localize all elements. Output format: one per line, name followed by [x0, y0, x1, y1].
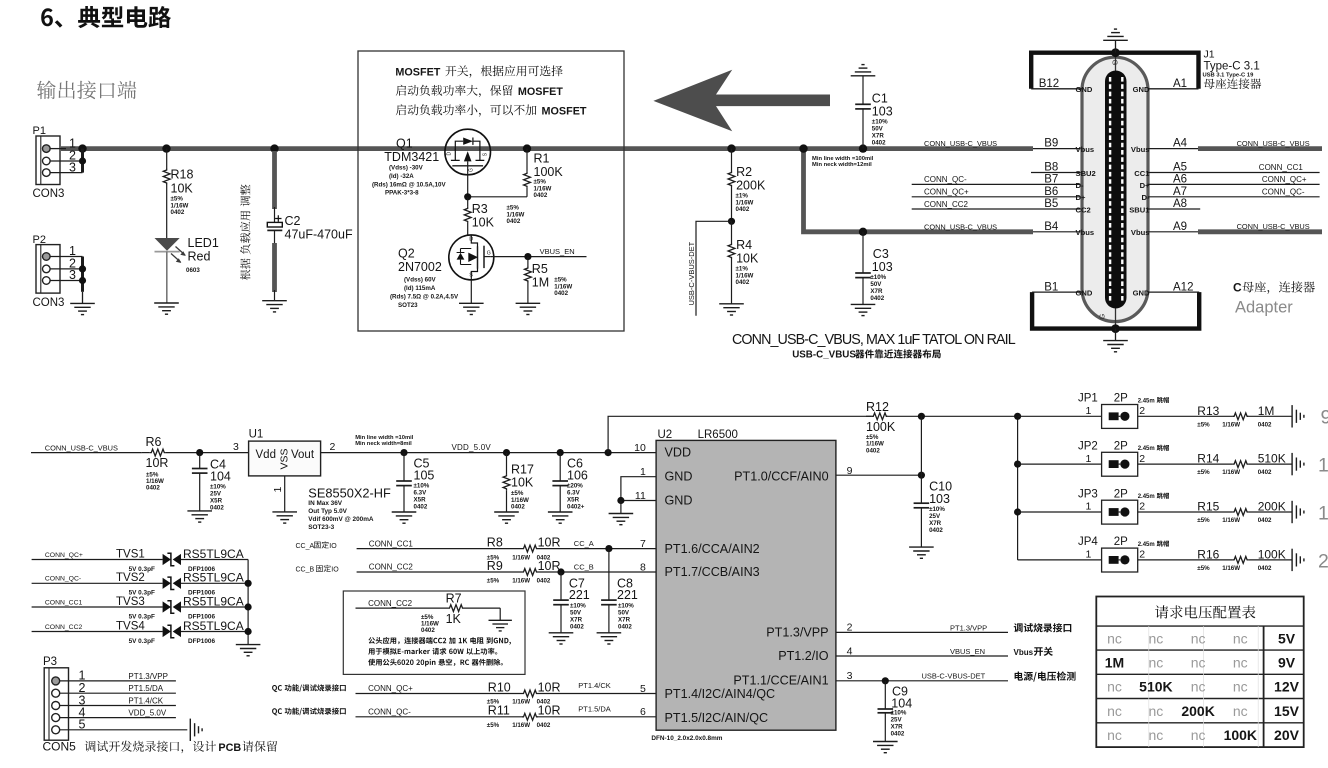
- junction dot Q1 gate / R1 / R3: [464, 193, 471, 200]
- svg-text:0402: 0402: [618, 623, 632, 630]
- svg-text:B7: B7: [1044, 173, 1058, 185]
- svg-text:6.3V: 6.3V: [567, 490, 581, 497]
- junction dot R5: [524, 253, 531, 260]
- svg-text:PT1.5/I2C/AIN/QC: PT1.5/I2C/AIN/QC: [665, 711, 769, 725]
- resistor R13 1M: [1138, 404, 1292, 429]
- svg-text:R2: R2: [736, 165, 752, 179]
- capacitor C4 104: [192, 453, 231, 512]
- svg-text:SOT23: SOT23: [398, 302, 418, 309]
- svg-text:10R: 10R: [538, 680, 561, 694]
- net label CONN_USB-C_VBUS (B4): [924, 222, 997, 231]
- svg-text:G: G: [487, 251, 491, 257]
- U2 pin numbers left: [634, 442, 646, 718]
- svg-text:11: 11: [635, 490, 646, 502]
- svg-text:2P: 2P: [1114, 536, 1128, 548]
- voltage request configuration table: [1096, 597, 1303, 748]
- svg-text:10R: 10R: [538, 535, 561, 549]
- ground below R17: [494, 512, 519, 523]
- svg-text:100K: 100K: [1224, 727, 1257, 743]
- svg-text:PT1.5/DA: PT1.5/DA: [128, 684, 163, 693]
- svg-text:RS5TL9CA: RS5TL9CA: [183, 547, 244, 561]
- resistor R16 100K: [1138, 547, 1292, 572]
- svg-text:A6: A6: [1173, 173, 1187, 185]
- svg-text:CONN_USB-C_VBUS: CONN_USB-C_VBUS: [1237, 139, 1310, 148]
- ground below U2 GND pins: [609, 514, 634, 525]
- regulator U1 SE8550X2-HF: [233, 428, 391, 530]
- svg-text:0402: 0402: [872, 140, 886, 147]
- svg-text:GND: GND: [1076, 85, 1093, 94]
- svg-text:1/16W: 1/16W: [1222, 469, 1240, 476]
- svg-text:510K: 510K: [1258, 452, 1286, 466]
- svg-text:R6: R6: [146, 435, 162, 449]
- svg-text:0402: 0402: [171, 209, 185, 216]
- svg-text:10K: 10K: [472, 216, 495, 230]
- svg-text:R8: R8: [487, 535, 503, 549]
- label Adapter: [1235, 299, 1293, 317]
- svg-text:SBU1: SBU1: [1129, 205, 1150, 214]
- svg-text:DFN-10_2.0x2.0x0.8mm: DFN-10_2.0x2.0x0.8mm: [651, 735, 722, 742]
- svg-text:X7R: X7R: [870, 288, 883, 295]
- svg-text:JP1: JP1: [1078, 393, 1098, 405]
- capacitor C9 104: [878, 681, 913, 742]
- svg-text:nc: nc: [1149, 655, 1164, 671]
- svg-text:R12: R12: [866, 400, 889, 414]
- wire U2 pin9 PT1.0: [836, 472, 925, 479]
- connector P3 CON5: [43, 656, 77, 754]
- jumper JP1 2P: [1018, 393, 1169, 429]
- svg-text:10R: 10R: [146, 456, 169, 470]
- svg-text:CONN_CC2: CONN_CC2: [924, 200, 969, 209]
- svg-text:CONN_QC-: CONN_QC-: [45, 576, 81, 583]
- svg-text:10R: 10R: [538, 559, 561, 573]
- svg-text:TVS4: TVS4: [116, 620, 145, 632]
- svg-text:Out Typ 5.0V: Out Typ 5.0V: [308, 508, 347, 515]
- svg-text:100K: 100K: [866, 420, 896, 434]
- svg-text:B6: B6: [1044, 186, 1058, 198]
- svg-text:JP2: JP2: [1078, 440, 1098, 452]
- svg-text:SBU2: SBU2: [1076, 169, 1096, 178]
- svg-text:CONN_USB-C_VBUS: CONN_USB-C_VBUS: [924, 139, 997, 148]
- svg-text:PT1.7/CCB/AIN3: PT1.7/CCB/AIN3: [665, 565, 760, 579]
- svg-text:R4: R4: [736, 238, 752, 252]
- wire VDD to R12 branch: [608, 416, 872, 452]
- label voltage 9V (clipped): [1321, 407, 1328, 429]
- svg-text:P3: P3: [43, 656, 57, 668]
- svg-text:R5: R5: [532, 262, 548, 276]
- svg-text:SE8550X2-HF: SE8550X2-HF: [308, 485, 391, 500]
- svg-text:USB-C_VBUS: USB-C_VBUS: [792, 350, 856, 361]
- svg-text:CONN_USB-C_VBUS: CONN_USB-C_VBUS: [1237, 222, 1310, 231]
- transistor Q2 2N7002 NMOS: [390, 235, 494, 309]
- svg-text:25V: 25V: [210, 491, 222, 498]
- svg-text:PT1.1/CCE/AIN1: PT1.1/CCE/AIN1: [733, 674, 828, 688]
- svg-text:0402: 0402: [866, 447, 880, 454]
- svg-text:Q1: Q1: [396, 137, 413, 151]
- svg-text:PT1.5/DA: PT1.5/DA: [578, 704, 611, 713]
- junction dot C10 top: [918, 413, 925, 420]
- svg-text:CONN_USB-C_VBUS: CONN_USB-C_VBUS: [45, 443, 118, 452]
- svg-text:D: D: [469, 237, 473, 243]
- capacitor C1 103: [855, 76, 893, 149]
- net label CONN_USB-C_VBUS (B9): [924, 139, 997, 148]
- wire CONN_USB-C_VBUS right (A4): [1148, 139, 1322, 149]
- svg-text:R9: R9: [487, 559, 503, 573]
- svg-text:20V: 20V: [1274, 727, 1300, 743]
- svg-text:Min neck width=8mil: Min neck width=8mil: [355, 441, 412, 447]
- svg-text:VDD: VDD: [665, 446, 692, 460]
- svg-text:(Rds) 16mΩ @ 10.5A,10V: (Rds) 16mΩ @ 10.5A,10V: [372, 181, 446, 188]
- resistor R2 200K: [728, 149, 766, 222]
- svg-text:nc: nc: [1107, 703, 1122, 719]
- svg-text:CONN_QC-: CONN_QC-: [924, 175, 967, 184]
- label QC debug port 2 (Chinese): [272, 708, 346, 716]
- svg-text:0402: 0402: [1258, 565, 1272, 572]
- svg-text:PPAK-3*3-8: PPAK-3*3-8: [385, 190, 419, 197]
- svg-text:(Vdss) -30V: (Vdss) -30V: [389, 165, 424, 172]
- TVS diode TVS2 RS5TL9CA (CONN_QC-): [32, 571, 249, 597]
- svg-text:1: 1: [1085, 501, 1091, 513]
- P2 pin wires and numbers: [50, 244, 86, 292]
- ground below Q2 source: [459, 280, 484, 315]
- title 6 typical circuit: [41, 6, 171, 28]
- svg-text:GND: GND: [1133, 289, 1150, 298]
- svg-text:10K: 10K: [511, 476, 534, 490]
- LED LED1 Red: [155, 236, 219, 303]
- svg-text:RS5TL9CA: RS5TL9CA: [183, 619, 244, 633]
- svg-text:3: 3: [69, 160, 76, 174]
- svg-text:±5%: ±5%: [1197, 421, 1210, 428]
- junction dot R2/R4 divider: [728, 218, 735, 225]
- svg-text:nc: nc: [1191, 655, 1206, 671]
- wire VDD_5.0V rail: [321, 435, 656, 452]
- wire JP bus vertical: [1014, 413, 1021, 560]
- svg-text:6.3V: 6.3V: [414, 490, 428, 497]
- svg-text:LR6500: LR6500: [698, 429, 738, 441]
- svg-text:200K: 200K: [1181, 703, 1214, 719]
- svg-text:R1: R1: [534, 152, 550, 166]
- svg-text:PT1.3/VPP: PT1.3/VPP: [128, 672, 168, 681]
- wire VBUS main rail: [61, 146, 1033, 151]
- svg-text:MOSFET: MOSFET: [395, 66, 440, 78]
- svg-text:CONN_QC+: CONN_QC+: [1262, 175, 1307, 184]
- svg-text:Min neck width=12mil: Min neck width=12mil: [812, 162, 872, 168]
- svg-text:TVS2: TVS2: [116, 572, 145, 584]
- svg-text:50V: 50V: [870, 281, 882, 288]
- svg-text:A1: A1: [1173, 78, 1187, 90]
- svg-text:VDD_5.0V: VDD_5.0V: [452, 443, 492, 452]
- junction dot C4: [196, 449, 203, 456]
- svg-text:CONN_CC2: CONN_CC2: [369, 563, 414, 572]
- svg-text:2: 2: [1139, 453, 1145, 465]
- ground below R5: [516, 303, 541, 314]
- svg-text:2.45m: 2.45m: [1138, 398, 1155, 404]
- svg-text:1M: 1M: [532, 276, 549, 290]
- svg-text:SOT23-3: SOT23-3: [308, 524, 334, 531]
- jumper JP3 2P: [1018, 488, 1169, 524]
- svg-text:±5%: ±5%: [1197, 469, 1210, 476]
- svg-text:A9: A9: [1173, 221, 1187, 233]
- svg-text:1/16W: 1/16W: [1222, 565, 1240, 572]
- svg-text:B12: B12: [1039, 78, 1059, 90]
- svg-text:5: 5: [640, 683, 646, 695]
- svg-text:PT1.4/CK: PT1.4/CK: [578, 681, 611, 690]
- svg-text:USB 3.1 Type-C 19: USB 3.1 Type-C 19: [1203, 72, 1255, 78]
- svg-text:B1: B1: [1044, 281, 1058, 293]
- svg-text:0402: 0402: [511, 504, 525, 511]
- svg-text:0402: 0402: [534, 192, 548, 199]
- side ground at R15: [1292, 501, 1304, 523]
- svg-text:0402: 0402: [736, 279, 750, 286]
- svg-text:VSS: VSS: [279, 448, 291, 469]
- svg-text:CONN_QC+: CONN_QC+: [368, 684, 413, 693]
- bottom GND bracket wire (B1/A12): [1032, 292, 1199, 333]
- svg-text:221: 221: [617, 588, 638, 602]
- svg-text:200K: 200K: [1258, 500, 1286, 514]
- ground below C6: [548, 512, 573, 523]
- svg-text:2.45m: 2.45m: [1138, 494, 1155, 500]
- svg-text:10R: 10R: [538, 704, 561, 718]
- wire TVS common ground bus: [245, 560, 252, 645]
- svg-text:R17: R17: [511, 463, 534, 477]
- label CC_B fixed IO (Chinese): [296, 565, 340, 574]
- svg-text:0402: 0402: [870, 295, 884, 302]
- wire PT1.3/VPP output: [836, 623, 1071, 632]
- resistor R15 200K: [1138, 500, 1292, 525]
- svg-text:50V: 50V: [570, 609, 582, 616]
- svg-text:±5%: ±5%: [1197, 517, 1210, 524]
- svg-text:B5: B5: [1044, 198, 1058, 210]
- resistor R4 10K: [728, 221, 759, 303]
- svg-text:103: 103: [929, 492, 950, 506]
- svg-text:CON5: CON5: [43, 740, 77, 754]
- svg-text:1: 1: [640, 466, 646, 478]
- svg-text:0402: 0402: [210, 505, 224, 512]
- ground below C2: [262, 301, 287, 312]
- resistor R3 10K: [464, 197, 524, 235]
- svg-text:IO: IO: [331, 566, 339, 573]
- svg-text:Vbus: Vbus: [1131, 228, 1150, 237]
- svg-text:B4: B4: [1044, 221, 1059, 233]
- svg-text:221: 221: [569, 588, 590, 602]
- label voltage 12V (clipped): [1318, 455, 1328, 477]
- svg-text:Adapter: Adapter: [1235, 299, 1293, 317]
- wire B9 thin segment: [1033, 148, 1082, 150]
- svg-text:100K: 100K: [534, 165, 564, 179]
- big gray arrow pointing left: [653, 70, 830, 132]
- J1 pin names inside body: [1076, 85, 1151, 297]
- svg-text:CONN_USB-C_VBUS: CONN_USB-C_VBUS: [924, 222, 997, 231]
- resistor R1 100K: [468, 149, 564, 200]
- svg-text:DFP1006: DFP1006: [188, 638, 215, 645]
- svg-text:105: 105: [414, 468, 435, 482]
- svg-text:nc: nc: [1149, 703, 1164, 719]
- TVS diode TVS3 RS5TL9CA (CONN_CC1): [32, 594, 249, 620]
- svg-text:3: 3: [233, 441, 239, 453]
- resistor R14 510K: [1138, 452, 1292, 477]
- svg-text:G: G: [1098, 314, 1107, 320]
- svg-text:±20%: ±20%: [567, 483, 583, 490]
- svg-text:CON3: CON3: [33, 188, 65, 200]
- svg-text:0402: 0402: [570, 623, 584, 630]
- svg-text:GND: GND: [665, 470, 693, 484]
- svg-text:0603: 0603: [186, 267, 200, 274]
- ground below C3: [851, 304, 876, 315]
- svg-text:±10%: ±10%: [570, 602, 586, 609]
- svg-text:CONN_QC+: CONN_QC+: [45, 552, 83, 559]
- svg-text:A12: A12: [1173, 281, 1193, 293]
- svg-text:X7R: X7R: [929, 520, 942, 527]
- svg-text:15: 15: [1318, 502, 1328, 524]
- svg-text:0402+: 0402+: [567, 504, 585, 511]
- capacitor C8 221: [601, 549, 638, 633]
- side ground at R13: [1292, 405, 1304, 427]
- svg-text:Vbus: Vbus: [1076, 228, 1095, 237]
- svg-text:103: 103: [872, 260, 893, 274]
- svg-text:Vout: Vout: [291, 449, 315, 461]
- svg-text:1K: 1K: [446, 612, 462, 626]
- svg-text:CC_A: CC_A: [296, 543, 315, 550]
- svg-text:nc: nc: [1149, 630, 1164, 646]
- svg-text:CONN_USB-C_VBUS, MAX 1uF TATOL: CONN_USB-C_VBUS, MAX 1uF TATOL ON RAIL: [732, 332, 1016, 348]
- ground below J1: [1103, 329, 1128, 352]
- transistor Q1 TDM3421 PMOS: [372, 129, 491, 197]
- svg-text:nc: nc: [1149, 727, 1164, 743]
- svg-text:nc: nc: [1233, 703, 1248, 719]
- svg-text:1: 1: [1085, 405, 1091, 417]
- wire CONN_CC2 stub (B5): [912, 200, 1082, 209]
- ground below C10: [909, 547, 934, 558]
- wire R12 to JP bus: [921, 415, 1017, 417]
- svg-text:(Vdss) 60V: (Vdss) 60V: [404, 277, 437, 284]
- svg-text:X7R: X7R: [891, 723, 904, 730]
- wire A8 stub: [1148, 208, 1200, 210]
- svg-text:0402: 0402: [537, 578, 551, 585]
- svg-text:CON3: CON3: [33, 297, 65, 309]
- svg-text:Vdif 600mV @ 200mA: Vdif 600mV @ 200mA: [308, 516, 374, 523]
- svg-text:R16: R16: [1197, 547, 1219, 561]
- connector J1 USB Type-C body: [1082, 53, 1148, 329]
- ground below TVS bus: [236, 645, 261, 656]
- svg-text:0402: 0402: [537, 722, 551, 729]
- svg-text:10K: 10K: [171, 182, 194, 196]
- svg-text:TVS1: TVS1: [116, 548, 145, 560]
- resistor R10 10R (CONN_QC+): [356, 680, 657, 705]
- svg-text:0402: 0402: [1258, 517, 1272, 524]
- wire USB-C-VBUS-DET output: [836, 671, 1076, 684]
- svg-text:GND: GND: [665, 494, 693, 508]
- svg-text:C: C: [1233, 281, 1242, 295]
- wire B8 stub: [1031, 172, 1082, 174]
- svg-text:±5%: ±5%: [487, 578, 500, 585]
- label C receptacle connector (Chinese): [1233, 281, 1315, 295]
- svg-text:103: 103: [872, 104, 893, 118]
- svg-text:R3: R3: [472, 202, 488, 216]
- svg-text:1/16W: 1/16W: [1222, 421, 1240, 428]
- svg-text:USB-C-VBUS-DET: USB-C-VBUS-DET: [687, 241, 696, 305]
- svg-text:1M: 1M: [1105, 655, 1124, 671]
- TVS diode TVS4 RS5TL9CA (CONN_CC2): [32, 619, 249, 645]
- svg-text:nc: nc: [1191, 679, 1206, 695]
- svg-text:X5R: X5R: [210, 498, 223, 505]
- svg-text:P1: P1: [33, 125, 46, 137]
- TVS diode TVS1 RS5TL9CA (CONN_QC+): [32, 547, 249, 573]
- svg-text:2: 2: [1139, 549, 1145, 561]
- svg-text:PT1.4/CK: PT1.4/CK: [128, 697, 163, 706]
- svg-text:10K: 10K: [736, 252, 759, 266]
- ground below C8: [597, 633, 622, 644]
- svg-text:200K: 200K: [736, 179, 766, 193]
- wire CONN_USB-C_VBUS input to U1: [31, 443, 142, 452]
- svg-text:2.45m: 2.45m: [1138, 542, 1155, 548]
- wire VBUS_EN output: [836, 647, 1053, 657]
- resistor R6 10R: [142, 435, 249, 491]
- svg-text:IN Max 36V: IN Max 36V: [308, 500, 342, 507]
- svg-text:±10%: ±10%: [870, 274, 886, 281]
- svg-text:CONN_CC1: CONN_CC1: [369, 539, 414, 548]
- svg-text:2: 2: [330, 441, 336, 453]
- svg-text:CC2: CC2: [1076, 205, 1091, 214]
- wire CONN_USB-C_VBUS right (A9): [1148, 222, 1322, 232]
- svg-text:CONN_CC2: CONN_CC2: [45, 624, 83, 631]
- svg-text:TVS3: TVS3: [116, 596, 145, 608]
- svg-text:C1: C1: [872, 91, 888, 105]
- svg-text:VBUS_EN: VBUS_EN: [950, 647, 985, 656]
- svg-text:nc: nc: [1233, 655, 1248, 671]
- ground below C7: [549, 633, 574, 644]
- J1 left pin wires: [1031, 89, 1082, 292]
- svg-text:2P: 2P: [1114, 440, 1128, 452]
- svg-text:1/16W: 1/16W: [1222, 517, 1240, 524]
- label voltage 15V (clipped): [1318, 502, 1328, 524]
- svg-text:0402: 0402: [414, 504, 428, 511]
- svg-text:MOSFET: MOSFET: [518, 86, 563, 98]
- junction dots on VBUS rail: [78, 144, 867, 236]
- svg-text:B8: B8: [1044, 162, 1058, 174]
- svg-text:1: 1: [1085, 453, 1091, 465]
- svg-text:0402: 0402: [1258, 469, 1272, 476]
- svg-text:X7R: X7R: [618, 616, 631, 623]
- resistor R11 10R (CONN_QC-): [356, 704, 657, 729]
- svg-text:G: G: [468, 168, 474, 172]
- svg-text:±5%: ±5%: [1197, 565, 1210, 572]
- svg-text:A8: A8: [1173, 198, 1187, 210]
- J1 pad labels right column: [1173, 78, 1193, 293]
- resistor R8 10R (CONN_CC1 to CCA): [357, 535, 656, 561]
- svg-text:12: 12: [1318, 455, 1328, 477]
- svg-text:B9: B9: [1044, 138, 1058, 150]
- svg-text:2N7002: 2N7002: [398, 260, 442, 274]
- ground below P2: [70, 292, 95, 315]
- svg-text:(Id) -32A: (Id) -32A: [389, 173, 414, 180]
- svg-text:S: S: [469, 273, 473, 279]
- svg-text:USB-C-VBUS-DET: USB-C-VBUS-DET: [922, 672, 986, 681]
- side ground at P3 pin 5: [190, 719, 202, 741]
- svg-text:Type-C 3.1: Type-C 3.1: [1204, 61, 1260, 73]
- svg-text:CONN_CC1: CONN_CC1: [1259, 163, 1304, 172]
- svg-text:0402: 0402: [736, 206, 750, 213]
- svg-text:RS5TL9CA: RS5TL9CA: [183, 594, 244, 608]
- svg-text:R14: R14: [1197, 452, 1219, 466]
- svg-text:20: 20: [1318, 550, 1328, 572]
- connector P1 CON3: [33, 125, 65, 200]
- svg-text:PT1.3/VPP: PT1.3/VPP: [766, 625, 828, 639]
- ground below U1 VSS: [272, 512, 297, 523]
- connector P2 CON3: [33, 234, 65, 309]
- resistor R5 1M: [525, 257, 573, 304]
- svg-text:nc: nc: [1107, 630, 1122, 646]
- U2 pin numbers right: [847, 465, 853, 682]
- svg-text:1/16W: 1/16W: [512, 578, 530, 585]
